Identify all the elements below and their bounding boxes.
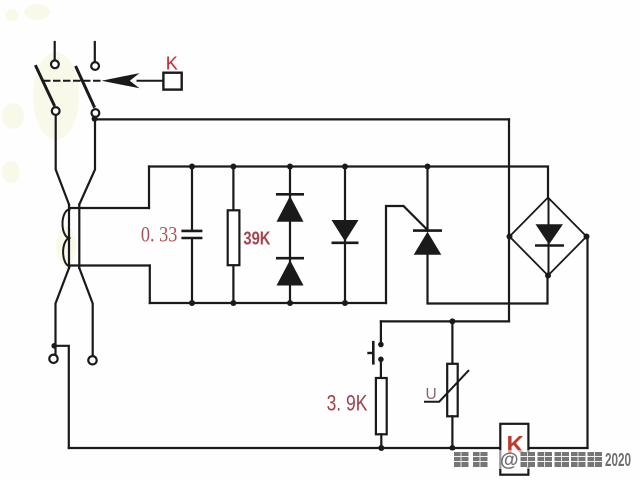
- wire pole1 lower lead: [56, 115, 69, 205]
- transformer T1 winding arc 1: [62, 210, 69, 239]
- wire arrow shaft to K coil box: [138, 80, 164, 82]
- svg-text:K: K: [166, 53, 178, 73]
- resistor R2 3.9K body: [376, 378, 387, 434]
- transformer T1 winding wire right: [78, 205, 80, 269]
- wire main top rail: [149, 167, 548, 198]
- junction dot top rail D1: [287, 164, 293, 170]
- watermark CJK chars 阳光的能量: [521, 452, 603, 467]
- wire bottom rail: [69, 447, 588, 449]
- pushbutton SB lower lead: [380, 359, 382, 378]
- junction dot pushbutton upper contact: [378, 342, 384, 348]
- wire left edge upper segment: [148, 167, 150, 209]
- junction dot bottom rail C1: [189, 300, 195, 306]
- junction dot bottom rail R1: [230, 300, 236, 306]
- svg-text:3. 9K: 3. 9K: [327, 391, 368, 416]
- diode D3 triangle: [332, 220, 359, 242]
- switch K contact pole 1 lever: [36, 67, 54, 105]
- svg-text:39K: 39K: [243, 227, 270, 248]
- diode D3 bar: [332, 242, 359, 245]
- junction dot bridge left vertex: [507, 234, 513, 240]
- capacitor C1 plates: [183, 231, 201, 238]
- junction dot bottom rail D3: [342, 300, 348, 306]
- capacitor C1 top lead: [191, 167, 193, 231]
- junction dot pushbutton lower contact: [378, 357, 384, 363]
- varistor RV bottom lead: [451, 416, 453, 448]
- bridge inner diode bar: [535, 244, 564, 246]
- pushbutton SB lead: [380, 321, 382, 344]
- wire right edge down: [586, 237, 588, 449]
- resistor R1 39K leads: [232, 167, 234, 304]
- wire transformer lower-right lead: [79, 268, 92, 356]
- wire top stub pole 2: [94, 42, 96, 62]
- svg-text:@: @: [500, 450, 519, 471]
- switch pole 2 upper contact circle: [91, 62, 99, 70]
- switch linkage dashed line: [44, 80, 101, 82]
- bridge rectifier diamond: [510, 198, 587, 276]
- transformer T1 winding wire left: [68, 205, 70, 269]
- relay coil K box bottom: [500, 424, 528, 475]
- junction dot transformer left terminal: [51, 343, 57, 349]
- bridge inner diode lead: [548, 199, 550, 274]
- junction dot bottom rail D1: [287, 300, 293, 306]
- switch pole 1 lower contact circle: [52, 107, 60, 115]
- watermark CJK char 头: [454, 452, 488, 467]
- capacitor C1 bottom lead: [191, 239, 193, 303]
- junction dot varistor bottom: [449, 445, 455, 451]
- wire branch from left terminal to bottom rail: [54, 346, 69, 448]
- resistor R2 3.9K bottom lead: [380, 434, 382, 448]
- terminal circle right: [88, 356, 96, 364]
- wire main bottom rail: [150, 302, 386, 304]
- junction dot top rail C1: [189, 164, 195, 170]
- thyristor V1 gate lead: [386, 206, 428, 303]
- diode D2 bar: [276, 257, 304, 260]
- diode D1 bar: [276, 193, 304, 196]
- junction dot top rail D3: [342, 164, 348, 170]
- thyristor V1 anode lead: [426, 167, 428, 232]
- varistor RV body: [447, 364, 458, 417]
- highlight blob top-left: [2, 4, 79, 266]
- wire long top feed from switch to right side: [95, 118, 509, 120]
- wire transformer lower-left lead: [56, 268, 70, 354]
- bridge inner diode triangle: [536, 224, 564, 244]
- svg-text:2020: 2020: [605, 449, 631, 470]
- pushbutton SB plate: [372, 342, 375, 363]
- arrow to relay coil K: [102, 73, 140, 88]
- junction dot top rail V1: [425, 164, 431, 170]
- wire diode string D1 D2: [289, 167, 291, 304]
- junction dot varistor top: [449, 318, 455, 324]
- relay coil K box: [163, 73, 181, 90]
- thyristor V1 cathode bar: [413, 229, 442, 232]
- varistor RV diagonal: [425, 371, 468, 402]
- transformer T1 winding arc 2: [63, 238, 69, 266]
- thyristor V1 triangle: [414, 232, 442, 255]
- svg-text:U: U: [426, 386, 437, 403]
- terminal circle left: [49, 355, 57, 363]
- junction dot bridge bottom vertex: [545, 273, 551, 279]
- pushbutton SB stem: [369, 352, 374, 354]
- svg-text:0. 33: 0. 33: [141, 222, 178, 247]
- wire left edge lower segment: [149, 266, 151, 304]
- switch K contact pole 2 lever: [76, 67, 94, 106]
- switch pole 1 upper contact circle: [51, 60, 59, 68]
- wire from feed to pushbutton rail: [381, 320, 509, 322]
- thyristor V1 cathode lead to bridge bottom: [428, 255, 548, 304]
- wire diode D3: [344, 167, 346, 304]
- junction dot R2 bottom: [378, 445, 384, 451]
- junction dot switch pole2 bottom: [92, 116, 98, 122]
- resistor R1 39K body: [228, 210, 240, 265]
- wire pole2 lower lead: [79, 119, 95, 205]
- varistor RV lead top: [451, 321, 453, 363]
- wire bottom tap: [70, 264, 150, 266]
- wire top tap: [70, 207, 149, 209]
- watermark halo: [450, 450, 630, 469]
- diode D1 triangle: [277, 196, 304, 222]
- junction dot top rail R1: [230, 164, 236, 170]
- wire right feed down through bridge left vertex: [508, 119, 510, 321]
- junction dot bridge right vertex: [584, 234, 590, 240]
- diode D2 triangle: [277, 260, 304, 286]
- wire top stub pole 1: [54, 42, 56, 60]
- switch pole 2 lower contact circle: [92, 109, 100, 117]
